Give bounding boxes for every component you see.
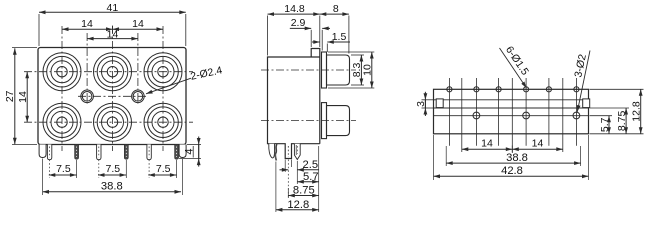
tab T2 right [179,145,186,158]
front view body outline [38,48,186,145]
centerline hole H1 [86,33,88,104]
barrel row2 [327,106,350,136]
svg-text:14: 14 [532,137,544,149]
dim 41 extension lines [38,14,40,46]
post hole Ø2 #1 [473,112,480,119]
hole column line 4 [525,78,527,146]
dim 4 [198,145,200,159]
extension line pin [125,160,127,178]
side pin dark (curved) [275,144,277,160]
pin P1b ground [75,145,79,160]
post hole Ø2 #2 [523,112,530,119]
svg-text:6-Ø1.5: 6-Ø1.5 [503,44,531,77]
pin P2a signal [97,145,101,160]
jack J4 concentric circles [43,103,81,141]
dim 14.8 [268,13,320,15]
ext right y108 [590,107,630,109]
ext line body right ref [318,146,320,212]
side body outline [268,57,320,159]
flange row1 [322,52,327,88]
dim 10 extension lines [328,51,374,53]
svg-text:1.5: 1.5 [332,31,347,43]
ext line white pin [296,161,298,184]
hole column line 3 [498,78,500,146]
side tab hook [269,144,275,158]
ext line dark pin [275,162,277,213]
dim 5.7 bottom view [608,116,610,134]
bottom interior line 3 [434,115,589,117]
column centerline 2 [511,78,513,152]
centerline holes row [78,95,147,97]
pin hole Ø1.5 #4 [524,87,529,92]
dim 14 rows [26,72,28,123]
dim 12.8 bottom view [640,89,642,134]
bottom interior line 2 [434,107,589,109]
pin P3a signal [147,145,151,160]
extension line pin [98,160,100,179]
extension line tab T1 [42,159,44,196]
side top tab step [311,49,320,144]
column centerline 1 [461,78,463,152]
svg-text:2-Ø2.4: 2-Ø2.4 [189,64,223,82]
dim 14-14 bottom [462,148,563,150]
hole H1 (2.4mm) left [81,90,94,103]
dim 8 [320,13,349,15]
svg-text:5.7: 5.7 [303,171,319,183]
svg-text:14: 14 [132,18,144,30]
centerline row 1 [24,71,193,73]
extension line pin [49,160,51,179]
svg-text:10: 10 [362,64,374,76]
hole column line 6 [575,78,577,146]
dim 8.3 extension lines [351,54,364,56]
pin hole Ø1.5 #2 [474,87,479,92]
svg-text:12.8: 12.8 [631,101,643,122]
svg-text:7.5: 7.5 [56,163,71,175]
jack J6 concentric circles [144,103,182,141]
pin hole Ø1.5 #5 [546,87,551,92]
dim 41 [39,11,186,13]
hole column line 2 [475,78,477,146]
dim 7.5 #2 [98,174,126,176]
tab hole right [583,99,590,108]
svg-text:27: 27 [4,90,16,102]
svg-text:3: 3 [415,101,427,107]
centerline col 2 [112,26,114,151]
dim 10 [371,52,373,88]
side post hidden pin [287,146,289,157]
extension line tab T2 [182,159,184,196]
ext right y89 [590,88,644,90]
dim 14-14 line [62,28,163,30]
svg-text:8.75: 8.75 [616,111,628,132]
dim 2.9 extension lines [310,30,312,47]
svg-text:41: 41 [107,2,119,14]
svg-text:14: 14 [107,28,119,40]
ext 42.8 left [433,135,435,180]
centerline hole H2 [137,33,139,104]
ext 42.8 right [588,135,590,180]
dim 38.8 front [43,191,182,193]
dim 7.5 #3 [148,174,176,176]
svg-text:14.8: 14.8 [284,3,305,15]
dim 8.75 bottom view [625,108,627,134]
svg-text:42.8: 42.8 [501,165,523,177]
ext line post right [291,160,293,168]
svg-text:7.5: 7.5 [105,163,120,175]
pin P2b ground [124,145,128,160]
dim 27 [14,48,16,144]
dim 8.75 [288,195,318,197]
svg-text:8.75: 8.75 [293,185,315,197]
barrel row1 [327,55,350,85]
dim 42.8 bottom [434,175,589,177]
dim 2.9 [290,27,311,29]
dim 3 extension lines [422,99,435,101]
dim 1.5 [312,41,320,43]
flange row2 [322,103,327,139]
tab hole left [436,99,443,108]
svg-text:14: 14 [17,91,29,103]
bottom interior line 1 [434,99,589,101]
bottom view band outline [434,89,589,134]
svg-text:8: 8 [333,3,339,15]
extension line pin [148,160,150,179]
leader 2-Ø2.4 [146,78,191,94]
ext line post center [287,160,289,199]
dim 3 [424,100,426,108]
column centerline 3 [562,78,564,152]
ext line post left [284,160,286,173]
hole H2 (2.4mm) right [132,90,145,103]
dim 38.8 bottom [446,162,580,164]
svg-text:2.9: 2.9 [291,17,306,29]
tab T1 left [39,145,46,158]
jack J3 concentric circles [144,53,182,91]
svg-text:14: 14 [481,137,493,149]
side centerline row2 [261,120,356,122]
extension line pin [176,160,178,178]
svg-text:14: 14 [81,18,93,30]
centerline row 2 [24,121,193,123]
hole column line 5 [548,78,550,146]
dim 8.3 [360,55,362,85]
pin hole Ø1.5 #3 [496,87,501,92]
leader 6-Ø1.5 [500,48,527,88]
dim 1.5 extension line [326,44,328,53]
svg-text:3-Ø2: 3-Ø2 [572,53,589,78]
post hole Ø2 #3 [573,112,580,119]
jack J1 concentric circles [43,53,81,91]
pin hole Ø1.5 #6 [574,87,579,92]
dim 4 extension lines [187,144,201,146]
extension line pin [76,160,78,178]
centerline col 3 [162,26,164,151]
pin P1a signal [47,145,51,160]
dim 5.7 [297,181,318,183]
svg-text:5.7: 5.7 [599,117,611,132]
side centerline row1 [261,69,356,71]
side pin white [294,144,300,160]
ext 38.8 left [445,146,447,166]
pin hole Ø1.5 #1 [447,87,452,92]
hole column line 1 [448,78,450,146]
dim 14 holes [87,38,138,40]
svg-text:12.8: 12.8 [287,199,309,211]
dim 27 extension lines [12,47,37,49]
ext right y115.7 [590,115,613,117]
ext 38.8 right [580,146,582,166]
svg-text:38.8: 38.8 [101,180,123,192]
svg-text:38.8: 38.8 [506,152,528,164]
svg-text:7.5: 7.5 [156,163,171,175]
dim 2.5 [280,169,289,171]
centerline col 1 [61,26,63,151]
pin P3b ground [175,145,179,160]
ext right y133.8 [590,133,644,135]
dim 12.8 [276,209,319,211]
svg-text:2.5: 2.5 [303,159,319,171]
svg-text:4: 4 [184,149,196,155]
dim 14.8 extension lines [267,16,269,56]
leader 3-Ø2 [577,51,590,112]
dim 7.5 #1 [49,174,77,176]
jack J2 concentric circles [94,53,132,91]
jack J5 concentric circles [94,103,132,141]
